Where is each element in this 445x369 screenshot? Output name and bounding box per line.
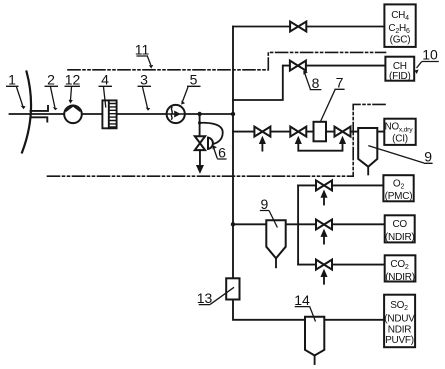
analyzer box CO (NDIR) <box>385 215 415 242</box>
wire: O2 row <box>298 184 383 186</box>
svg-text:8: 8 <box>312 75 320 91</box>
wire: vertical distribution bus <box>233 27 384 320</box>
boundary cooler zone (dash-dot) <box>353 104 385 176</box>
label 11 leader <box>137 56 151 65</box>
wire: bypass loop under converter <box>298 143 342 151</box>
node: junction main line / regulator branch <box>197 112 201 116</box>
svg-text:CO: CO <box>392 219 407 230</box>
svg-text:(NDIR): (NDIR) <box>385 232 415 243</box>
node: bus to condenser 9 left <box>231 222 235 226</box>
svg-text:(NDUV: (NDUV <box>384 313 415 324</box>
wire: CO2 row <box>298 264 385 266</box>
label 13 leader <box>199 287 234 304</box>
valve CO2 <box>316 260 332 270</box>
label 9 left leader <box>260 211 278 228</box>
wire: stub below NOx inlet valve <box>261 143 263 151</box>
label 5 leader <box>183 86 201 101</box>
svg-text:13: 13 <box>197 290 213 306</box>
svg-text:4: 4 <box>101 72 109 88</box>
wire: NOx branch <box>233 131 384 133</box>
condenser 9 (left) <box>266 220 285 258</box>
label 12 leader <box>65 86 81 100</box>
label 3 leader <box>138 86 152 108</box>
svg-text:(CI): (CI) <box>392 134 408 145</box>
label 4 leader <box>99 86 113 107</box>
stack wall curve <box>22 72 31 153</box>
wire: branch down to regulator 6 <box>199 114 201 136</box>
analyzer box CH (FID) <box>385 57 414 81</box>
svg-text:7: 7 <box>336 75 344 91</box>
wire: CH branch <box>233 66 385 100</box>
condenser 14 <box>305 317 324 356</box>
label 7 leader <box>321 89 345 121</box>
wire: manifold <box>297 185 299 264</box>
converter 7 <box>314 122 327 142</box>
svg-text:2: 2 <box>47 72 55 88</box>
svg-text:9: 9 <box>424 149 432 165</box>
label 8 leader <box>305 74 322 90</box>
label 2 leader <box>45 86 59 107</box>
label 14 leader <box>295 306 316 321</box>
leader arrowheads <box>21 65 419 150</box>
boundary heated zone bottom (dash-dot) <box>48 175 353 177</box>
valve CO <box>316 220 332 230</box>
wire: CO row <box>233 223 385 225</box>
valve O2 <box>316 180 332 190</box>
svg-text:5: 5 <box>190 72 198 88</box>
label 10 leader <box>417 62 439 69</box>
valve after converter 7 <box>335 127 351 137</box>
pump 12 <box>64 106 82 124</box>
valve NOx inlet <box>254 127 270 137</box>
component 13 (flow meter) <box>226 278 239 299</box>
svg-text:11: 11 <box>135 41 150 57</box>
condenser 9 (right) <box>358 128 377 167</box>
valve before converter 7 <box>290 127 306 137</box>
analyzer box NOx,dry (Cl) <box>384 119 415 145</box>
analyzer box CO2 (NDIR) <box>385 255 416 281</box>
svg-text:(FID): (FID) <box>389 71 411 82</box>
svg-text:3: 3 <box>140 72 148 88</box>
valve 8 <box>290 61 306 71</box>
box texts <box>384 10 415 346</box>
svg-text:12: 12 <box>65 72 81 88</box>
svg-text:10: 10 <box>422 47 438 63</box>
valve on CH4 line <box>290 22 306 32</box>
wire: main sample line <box>10 113 234 115</box>
analyzer box CH4/C2H6 (GC) <box>384 4 415 47</box>
svg-text:PUVF): PUVF) <box>385 335 414 346</box>
label 1 leader <box>6 86 23 106</box>
analyzer box SO2 (NDUV NDIR PUVF) <box>384 295 415 348</box>
filter 4 <box>102 100 116 128</box>
svg-text:NDIR: NDIR <box>388 324 411 335</box>
svg-text:(NDIR): (NDIR) <box>385 272 415 283</box>
wire: CH4 branch <box>233 26 384 28</box>
pressure regulator 6 (vertical valve + actuator + sensing loop) <box>195 136 205 150</box>
svg-text:(GC): (GC) <box>390 35 411 46</box>
reference labels <box>6 41 439 321</box>
probe (sampling probe at stack) <box>31 106 49 122</box>
label 6 leader <box>214 148 227 159</box>
svg-text:1: 1 <box>8 72 16 88</box>
pump 5 <box>167 105 185 123</box>
svg-text:(PMC): (PMC) <box>385 191 413 202</box>
svg-text:6: 6 <box>218 144 226 160</box>
svg-text:14: 14 <box>294 292 310 308</box>
analyzer box O2 (PMC) <box>383 175 413 201</box>
boundary 11 (heated zone, dash-dot) <box>68 52 386 69</box>
wire: vent with arrow <box>199 150 201 166</box>
svg-text:9: 9 <box>261 196 269 212</box>
label 9 right leader <box>368 146 432 164</box>
